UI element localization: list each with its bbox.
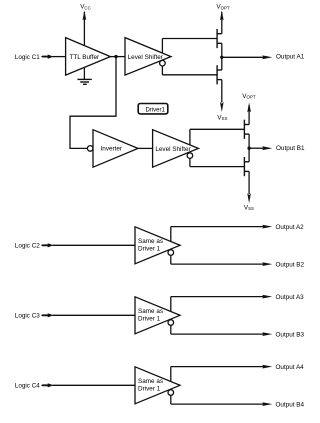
svg-text:Output B4: Output B4 — [276, 401, 305, 408]
svg-text:Output A3: Output A3 — [276, 294, 305, 301]
svg-text:VSS: VSS — [217, 114, 227, 121]
svg-text:Output B1: Output B1 — [276, 145, 305, 152]
svg-text:Level Shifter: Level Shifter — [155, 146, 190, 153]
svg-text:Output A2: Output A2 — [276, 224, 305, 231]
svg-text:TTL Buffer: TTL Buffer — [69, 54, 99, 61]
svg-text:VCC: VCC — [80, 4, 91, 11]
svg-text:Output B3: Output B3 — [276, 331, 305, 338]
svg-text:VSS: VSS — [244, 205, 254, 212]
svg-text:Output A1: Output A1 — [276, 54, 305, 61]
svg-text:Output A4: Output A4 — [276, 364, 305, 371]
svg-text:Inverter: Inverter — [101, 146, 123, 153]
svg-text:Logic C1: Logic C1 — [15, 54, 41, 61]
svg-text:Level Shifter: Level Shifter — [128, 54, 163, 61]
svg-text:VOPT: VOPT — [216, 4, 230, 11]
svg-text:Output B2: Output B2 — [276, 261, 305, 268]
svg-text:Logic C3: Logic C3 — [15, 313, 41, 320]
svg-text:VOPT: VOPT — [242, 93, 256, 100]
svg-text:Driver1: Driver1 — [146, 107, 166, 113]
svg-text:Logic C2: Logic C2 — [15, 243, 41, 250]
svg-text:Logic C4: Logic C4 — [15, 383, 41, 390]
